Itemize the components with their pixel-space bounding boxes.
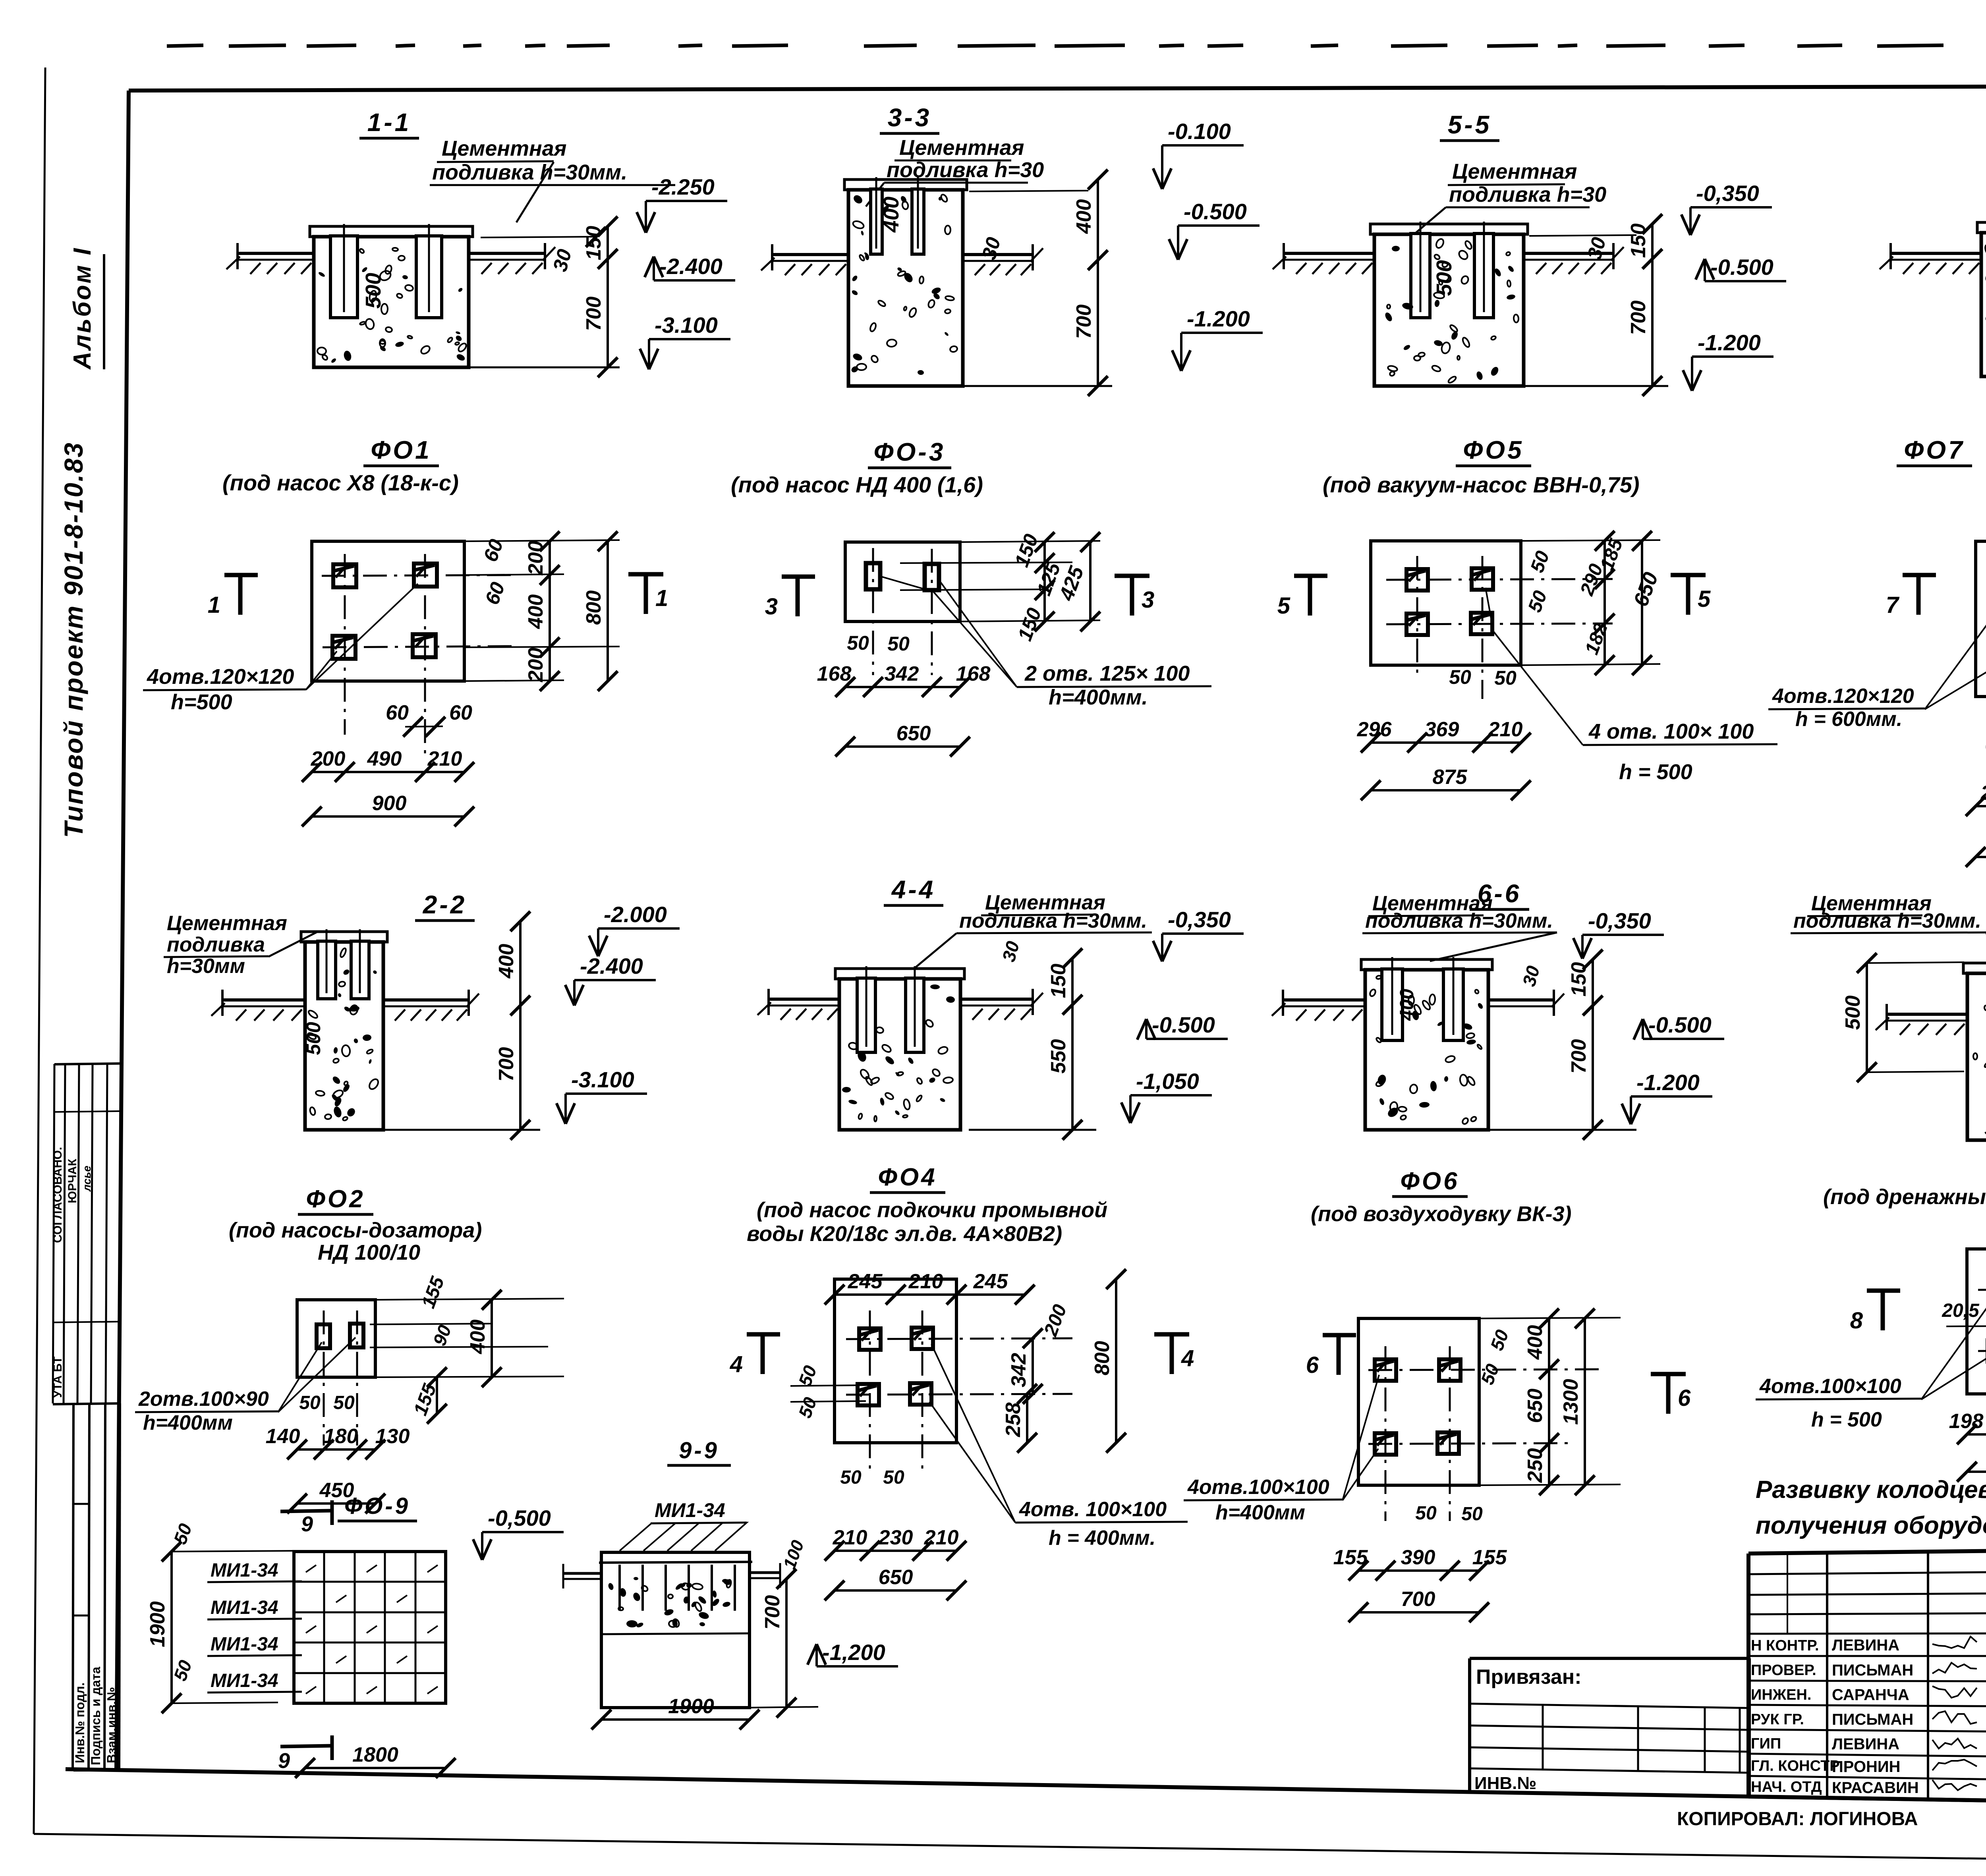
privyazan block — [1470, 1657, 1749, 1660]
svg-text:7: 7 — [1886, 592, 1900, 618]
svg-text:60: 60 — [386, 701, 409, 724]
svg-text:390: 390 — [1401, 1546, 1435, 1569]
section 4-4 vertical dimension — [1071, 958, 1074, 1130]
plan FO5 section marker left — [1308, 576, 1312, 616]
section 4-4 bottom extension — [969, 1129, 1096, 1131]
section 4-4 foundation block — [835, 969, 964, 979]
svg-text:ФО5: ФО5 — [1463, 436, 1524, 464]
svg-text:ФО6: ФО6 — [1400, 1168, 1459, 1195]
svg-text:245: 245 — [973, 1270, 1008, 1293]
svg-text:198: 198 — [1949, 1410, 1984, 1433]
plan FO2 outline — [297, 1300, 375, 1377]
section 4-4 floor slab right — [960, 998, 1033, 1001]
svg-text:ФО4: ФО4 — [878, 1164, 937, 1191]
section 1-1 anchor bolt slots — [330, 236, 357, 318]
svg-text:875: 875 — [1433, 766, 1468, 789]
svg-text:9-9: 9-9 — [679, 1438, 719, 1463]
title block left stamp rows — [1748, 1572, 1986, 1574]
svg-text:50: 50 — [883, 1467, 904, 1488]
svg-text:-0,350: -0,350 — [1696, 181, 1759, 206]
section 5-5 concrete texture — [1389, 371, 1395, 377]
svg-text:лсье: лсье — [81, 1166, 93, 1192]
plan FO4 bolt holes — [859, 1328, 881, 1350]
svg-text:ПРОНИН: ПРОНИН — [1832, 1758, 1901, 1776]
plan FO-9 grid — [294, 1552, 446, 1703]
section 6-6 floor slab right — [1488, 998, 1554, 1002]
svg-text:700: 700 — [582, 297, 605, 331]
svg-text:ПИСЬМАН: ПИСЬМАН — [1832, 1711, 1913, 1728]
svg-text:НАЧ. ОТД: НАЧ. ОТД — [1751, 1779, 1822, 1795]
section 3-3 foundation block — [844, 179, 967, 190]
section 2-2 foundation block — [301, 932, 387, 942]
svg-text:МИ1-34: МИ1-34 — [211, 1670, 278, 1691]
plan FO4 section marker left — [761, 1334, 765, 1374]
svg-text:-2.400: -2.400 — [659, 254, 723, 279]
section 5-5 floor slab right — [1524, 252, 1613, 255]
svg-text:ГИП: ГИП — [1751, 1735, 1781, 1752]
svg-text:СОГЛАСОВАНО.: СОГЛАСОВАНО. — [51, 1147, 64, 1243]
section 6-6 vertical dimension — [1592, 959, 1594, 1130]
svg-text:НД 100/10: НД 100/10 — [318, 1241, 420, 1264]
section 1-1 floor slab left — [238, 252, 314, 255]
svg-text:5: 5 — [1277, 593, 1291, 619]
svg-text:(под дренажный насос ВКС 1 (1: (под дренажный насос ВКС 1 (16) — [1823, 1185, 1986, 1209]
svg-text:ЮРЧАК: ЮРЧАК — [66, 1158, 79, 1203]
svg-text:4отв.100×100: 4отв.100×100 — [1187, 1476, 1329, 1499]
svg-text:1900: 1900 — [146, 1601, 169, 1647]
plan FO1 outline — [312, 541, 464, 681]
svg-text:-1.200: -1.200 — [1187, 306, 1250, 331]
section 1-1 floor slab right — [469, 252, 545, 255]
svg-text:50: 50 — [887, 633, 910, 655]
svg-text:500: 500 — [1841, 996, 1864, 1030]
svg-text:140: 140 — [266, 1425, 300, 1448]
svg-text:подливка h=30мм.: подливка h=30мм. — [1365, 909, 1553, 932]
svg-text:Развивку колодцев под болты пр: Развивку колодцев под болты производить … — [1756, 1476, 1986, 1504]
svg-text:-0,350: -0,350 — [1588, 908, 1651, 933]
svg-text:50: 50 — [847, 632, 869, 654]
section 3-3 floor slab left — [772, 253, 848, 256]
section 6-6 foundation block — [1361, 959, 1492, 970]
svg-text:1: 1 — [655, 585, 668, 611]
svg-text:50: 50 — [840, 1467, 862, 1488]
svg-text:САРАНЧА: САРАНЧА — [1832, 1686, 1909, 1704]
plan FO-9 section marker top — [280, 1511, 332, 1511]
plan FO5 outline — [1371, 541, 1521, 665]
section 5-5 vertical dimension — [1651, 224, 1654, 386]
svg-text:650: 650 — [896, 722, 931, 745]
svg-text:4-4: 4-4 — [891, 875, 936, 904]
svg-text:8: 8 — [1850, 1308, 1863, 1334]
section 9-9 block — [601, 1552, 750, 1708]
svg-text:6: 6 — [1306, 1352, 1319, 1378]
svg-text:1-1: 1-1 — [367, 108, 411, 137]
svg-text:-0.500: -0.500 — [1648, 1012, 1712, 1037]
svg-text:1800: 1800 — [352, 1743, 398, 1766]
svg-text:500: 500 — [361, 273, 385, 309]
section 3-3 concrete texture — [908, 307, 917, 318]
svg-text:ЛЕВИНА: ЛЕВИНА — [1832, 1735, 1899, 1753]
svg-text:400: 400 — [1397, 989, 1418, 1021]
plan FO-3 section marker right — [1130, 576, 1134, 616]
svg-text:4отв.100×100: 4отв.100×100 — [1759, 1375, 1901, 1398]
plan FO-3 outline — [845, 542, 960, 621]
svg-text:155: 155 — [1472, 1546, 1507, 1569]
svg-text:4 отв. 100× 100: 4 отв. 100× 100 — [1588, 720, 1754, 743]
svg-text:700: 700 — [1627, 301, 1650, 335]
svg-text:500: 500 — [302, 1022, 325, 1055]
plan FO-3 section marker left — [796, 577, 800, 616]
svg-text:h = 500: h = 500 — [1619, 760, 1692, 784]
plan FO1 section marker left — [238, 575, 243, 615]
section 1-1 vertical dimension — [607, 226, 609, 367]
svg-text:Цементная: Цементная — [167, 912, 287, 935]
svg-text:(под насос Х8 (18-к-с): (под насос Х8 (18-к-с) — [222, 470, 459, 495]
svg-text:Н КОНТР.: Н КОНТР. — [1751, 1637, 1819, 1654]
plan FO1 centerlines — [322, 575, 516, 576]
section 5-5 anchor bolt slots — [1411, 234, 1430, 318]
svg-text:подливка h=30мм.: подливка h=30мм. — [432, 160, 627, 184]
title block outline — [1748, 1545, 1986, 1554]
plan FO5 section marker right — [1686, 575, 1690, 615]
section 2-2 floor slab right — [383, 998, 469, 1002]
svg-text:ФО2: ФО2 — [306, 1185, 365, 1213]
svg-text:МИ1-34: МИ1-34 — [655, 1499, 725, 1521]
svg-text:2 отв. 125× 100: 2 отв. 125× 100 — [1024, 662, 1190, 685]
svg-text:50: 50 — [1461, 1504, 1483, 1525]
svg-text:369: 369 — [1425, 718, 1459, 741]
svg-text:ФО1: ФО1 — [371, 436, 431, 464]
svg-text:800: 800 — [582, 591, 605, 625]
plan FO-3 centerlines — [872, 548, 874, 675]
svg-text:150: 150 — [1047, 964, 1070, 998]
svg-text:ФО-3: ФО-3 — [874, 438, 946, 466]
svg-text:-2.400: -2.400 — [580, 953, 643, 979]
section 5-5 foundation block — [1370, 224, 1528, 234]
svg-text:4: 4 — [1181, 1345, 1194, 1371]
section 9-9 slab stubs — [564, 1572, 601, 1575]
svg-text:245: 245 — [848, 1270, 883, 1293]
section 8-8 floor slab left — [1887, 1013, 1967, 1016]
svg-text:4отв. 100×100: 4отв. 100×100 — [1019, 1498, 1167, 1521]
plan FO7 section marker left — [1916, 575, 1921, 615]
section 2-2 bottom extension — [383, 1129, 540, 1131]
svg-text:650: 650 — [1524, 1389, 1547, 1423]
svg-text:200: 200 — [524, 648, 547, 683]
svg-text:9: 9 — [278, 1749, 290, 1773]
plan FO5 right dims — [1521, 540, 1660, 541]
svg-text:550: 550 — [1047, 1039, 1070, 1074]
section 1-1 concrete texture — [381, 304, 388, 314]
plan FO2 slot holes — [317, 1324, 330, 1348]
svg-text:275: 275 — [1980, 782, 1986, 805]
drawing frame top — [129, 85, 1986, 91]
svg-text:150: 150 — [1567, 962, 1590, 997]
section 4-4 anchor bolt slots — [857, 978, 875, 1052]
plan FO8 centerlines — [1978, 1289, 1986, 1290]
plan FO6 bolt holes — [1375, 1359, 1396, 1381]
svg-text:155: 155 — [1333, 1546, 1368, 1569]
outer sheet edge top dashed — [167, 45, 203, 46]
svg-text:Привязан:: Привязан: — [1476, 1666, 1582, 1689]
svg-text:400: 400 — [1072, 199, 1095, 234]
svg-text:получения оборудования.: получения оборудования. — [1756, 1512, 1986, 1539]
svg-text:h=500: h=500 — [171, 690, 232, 714]
section 3-3 floor slab right — [963, 253, 1033, 256]
section 9-9 bottom dim 1900 — [601, 1718, 750, 1721]
section 8-8 left dim 500 — [1866, 963, 1868, 1072]
svg-text:ИНВ.№: ИНВ.№ — [1474, 1774, 1536, 1793]
section 2-2 vertical dimension — [519, 921, 522, 1130]
svg-text:МИ1-34: МИ1-34 — [211, 1597, 278, 1618]
svg-text:-0,500: -0,500 — [488, 1505, 551, 1531]
svg-text:(под насос подкочки промывной: (под насос подкочки промывной — [757, 1198, 1107, 1222]
svg-text:подливка h=30мм.: подливка h=30мм. — [959, 909, 1147, 932]
section 6-6 anchor bolt slots — [1382, 969, 1403, 1040]
section 8-8 foundation block — [1963, 963, 1986, 973]
svg-text:h=400мм.: h=400мм. — [1049, 685, 1148, 709]
svg-text:400: 400 — [466, 1320, 489, 1355]
section 3-3 bottom extension — [963, 385, 1112, 387]
svg-text:1: 1 — [208, 592, 220, 618]
svg-text:168: 168 — [817, 662, 852, 685]
plan FO8 bottom dims — [1967, 1433, 1986, 1436]
svg-text:-2.000: -2.000 — [604, 902, 667, 927]
plan FO5 bolt holes — [1406, 569, 1428, 591]
svg-text:подливка h=30: подливка h=30 — [1449, 183, 1606, 207]
section 6-6 concrete texture — [1376, 1037, 1381, 1043]
svg-text:h=400мм: h=400мм — [1215, 1501, 1305, 1524]
svg-text:-2.250: -2.250 — [651, 174, 715, 199]
svg-text:210: 210 — [427, 747, 462, 770]
svg-text:1900: 1900 — [668, 1695, 714, 1718]
section 6-6 bottom extension — [1488, 1129, 1636, 1131]
svg-text:200: 200 — [311, 747, 346, 770]
plan FO4 outline — [835, 1279, 956, 1443]
plan FO2 centerlines — [323, 1310, 325, 1446]
svg-text:(под вакуум-насос ВВН-0,75): (под вакуум-насос ВВН-0,75) — [1323, 472, 1640, 497]
plan FO-3 slot holes — [866, 563, 880, 589]
svg-text:ПРОВЕР.: ПРОВЕР. — [1751, 1662, 1816, 1679]
svg-text:130: 130 — [375, 1425, 410, 1448]
svg-text:20,5: 20,5 — [1942, 1300, 1980, 1321]
svg-text:-3.100: -3.100 — [571, 1067, 634, 1092]
svg-text:ПИСЬМАН: ПИСЬМАН — [1832, 1662, 1913, 1679]
svg-text:60: 60 — [449, 701, 472, 724]
svg-text:210: 210 — [908, 1270, 943, 1293]
section 4-4 concrete texture — [884, 1055, 896, 1066]
svg-text:210: 210 — [924, 1526, 959, 1549]
plan FO4 centerlines — [846, 1338, 1072, 1339]
svg-text:(под насос НД 400 (1,6): (под насос НД 400 (1,6) — [731, 472, 983, 497]
section 1-1 bottom extension — [469, 367, 620, 369]
svg-text:4отв.120×120: 4отв.120×120 — [1772, 685, 1914, 708]
svg-text:Цементная: Цементная — [899, 136, 1024, 160]
section 5-5 bottom extension — [1524, 385, 1668, 387]
svg-text:700: 700 — [761, 1595, 784, 1630]
svg-text:Инв.№ подл.: Инв.№ подл. — [73, 1683, 87, 1763]
svg-text:-3.100: -3.100 — [655, 313, 718, 338]
svg-text:5-5: 5-5 — [1448, 110, 1492, 139]
svg-text:(под воздуходувку ВК-3): (под воздуходувку ВК-3) — [1311, 1202, 1571, 1226]
plan FO6 centerlines — [1368, 1369, 1605, 1370]
plan FO1 dim 800 — [607, 541, 609, 681]
section 7-7 foundation block — [1977, 222, 1986, 233]
section 9-9 mesh hatch — [620, 1523, 747, 1551]
svg-text:(под насосы-дозатора): (под насосы-дозатора) — [229, 1218, 482, 1242]
svg-text:h=30мм: h=30мм — [167, 955, 245, 978]
svg-text:50: 50 — [1415, 1503, 1437, 1524]
svg-text:Цементная: Цементная — [442, 137, 566, 160]
svg-text:490: 490 — [367, 747, 402, 770]
svg-text:3: 3 — [765, 594, 778, 620]
section 2-2 floor slab left — [222, 998, 305, 1002]
svg-text:ФО-9: ФО-9 — [344, 1493, 410, 1519]
svg-text:650: 650 — [879, 1566, 913, 1589]
svg-text:подливка: подливка — [167, 933, 265, 956]
svg-text:296: 296 — [1357, 718, 1392, 741]
plan FO6 section marker right — [1666, 1374, 1671, 1414]
svg-text:Подпись и дата: Подпись и дата — [89, 1667, 103, 1765]
svg-text:2отв.100×90: 2отв.100×90 — [138, 1388, 269, 1411]
svg-text:5: 5 — [1698, 586, 1711, 612]
svg-text:-0.100: -0.100 — [1168, 119, 1231, 144]
svg-text:400: 400 — [1524, 1325, 1547, 1360]
plan FO5 centerlines — [1386, 579, 1613, 580]
section 7-7 floor slab left — [1891, 252, 1981, 255]
svg-text:КРАСАВИН: КРАСАВИН — [1832, 1779, 1919, 1797]
svg-text:-0.500: -0.500 — [1184, 199, 1247, 224]
svg-text:9: 9 — [301, 1512, 313, 1536]
svg-text:230: 230 — [878, 1526, 913, 1549]
svg-text:500: 500 — [1432, 260, 1456, 296]
svg-text:2-2: 2-2 — [423, 890, 467, 919]
left margin stamp boxes — [54, 1063, 121, 1064]
svg-text:ЛЕВИНА: ЛЕВИНА — [1832, 1637, 1899, 1654]
svg-text:3: 3 — [1142, 587, 1154, 613]
section 5-5 floor slab left — [1284, 252, 1374, 255]
section 3-3 anchor bolt slots — [871, 189, 882, 254]
svg-text:h = 600мм.: h = 600мм. — [1795, 708, 1902, 731]
svg-text:1300: 1300 — [1559, 1379, 1582, 1425]
svg-text:Типовой проект 901-8-10.83: Типовой проект 901-8-10.83 — [59, 442, 88, 838]
svg-text:50: 50 — [1494, 667, 1517, 689]
svg-text:400: 400 — [879, 197, 903, 233]
plan FO8 outline — [1967, 1249, 1986, 1394]
svg-text:ФО7: ФО7 — [1904, 436, 1965, 464]
plan FO1 section marker right — [644, 574, 648, 614]
svg-text:400: 400 — [524, 594, 547, 629]
svg-text:6: 6 — [1678, 1385, 1691, 1411]
svg-text:h = 400мм.: h = 400мм. — [1049, 1527, 1155, 1550]
svg-text:168: 168 — [956, 662, 991, 685]
section 4-4 floor slab left — [769, 998, 839, 1001]
svg-text:Альбом I: Альбом I — [69, 247, 96, 370]
plan FO-9 bottom dim — [305, 1767, 446, 1769]
svg-text:200: 200 — [524, 541, 547, 576]
svg-text:250: 250 — [1524, 1448, 1547, 1483]
title block signatures — [1932, 1637, 1977, 1648]
svg-text:h = 500: h = 500 — [1811, 1408, 1882, 1431]
plan FO6 outline — [1358, 1318, 1479, 1485]
svg-text:50: 50 — [1449, 666, 1471, 688]
svg-text:МИ1-34: МИ1-34 — [211, 1560, 278, 1581]
outer sheet edge bottom — [34, 1834, 1986, 1866]
svg-text:Цементная: Цементная — [1452, 160, 1577, 183]
plan FO7 outline — [1976, 541, 1986, 697]
svg-text:подливка h=30мм.: подливка h=30мм. — [1793, 909, 1981, 932]
svg-text:-0.500: -0.500 — [1152, 1012, 1215, 1037]
plan FO2 right dims — [375, 1299, 564, 1300]
svg-text:50: 50 — [299, 1392, 321, 1413]
svg-text:150: 150 — [1627, 224, 1650, 258]
svg-text:воды К20/18с эл.дв. 4А×80В2): воды К20/18с эл.дв. 4А×80В2) — [747, 1222, 1062, 1246]
section 2-2 concrete texture — [373, 970, 378, 975]
svg-text:180: 180 — [324, 1425, 358, 1448]
svg-text:-1,200: -1,200 — [822, 1640, 885, 1665]
drawing frame left — [116, 91, 129, 1769]
svg-text:КОПИРОВАЛ: ЛОГИНОВА: КОПИРОВАЛ: ЛОГИНОВА — [1677, 1808, 1918, 1830]
svg-text:900: 900 — [372, 792, 407, 815]
svg-text:РУК ГР.: РУК ГР. — [1751, 1711, 1804, 1728]
plan FO1 bolt holes — [333, 564, 356, 587]
svg-text:4отв.120×120: 4отв.120×120 — [147, 665, 294, 689]
plan FO6 section marker left — [1337, 1335, 1341, 1375]
svg-text:ИНЖЕН.: ИНЖЕН. — [1751, 1687, 1811, 1703]
section 1-1 grout leader — [516, 162, 554, 222]
left margin stamp boxes lower — [73, 1403, 73, 1771]
section 6-6 floor slab left — [1283, 998, 1365, 1002]
svg-text:МИ1-34: МИ1-34 — [211, 1634, 278, 1655]
svg-text:3-3: 3-3 — [888, 103, 932, 132]
svg-text:-1.200: -1.200 — [1698, 330, 1761, 355]
section 1-1 foundation block — [310, 226, 473, 237]
svg-text:-1,050: -1,050 — [1136, 1069, 1199, 1094]
svg-text:700: 700 — [1072, 305, 1095, 339]
svg-text:Взам.инв.№: Взам.инв.№ — [104, 1687, 119, 1763]
plan FO4 top dims — [835, 1293, 1025, 1296]
svg-text:210: 210 — [1488, 718, 1523, 741]
drawing frame bottom — [66, 1769, 1986, 1810]
svg-text:700: 700 — [495, 1047, 518, 1082]
svg-text:700: 700 — [1567, 1039, 1590, 1074]
svg-text:800: 800 — [1091, 1341, 1114, 1376]
svg-text:ГЛ. КОНСТР: ГЛ. КОНСТР — [1751, 1758, 1840, 1774]
svg-text:258: 258 — [1002, 1403, 1025, 1438]
svg-text:150: 150 — [582, 226, 605, 261]
outer sheet edge left — [34, 68, 45, 1834]
plan FO8 section marker left — [1881, 1291, 1885, 1330]
svg-text:342: 342 — [1007, 1353, 1030, 1388]
svg-text:342: 342 — [885, 662, 919, 685]
plan FO4 section marker right — [1170, 1334, 1174, 1374]
svg-text:h=400мм: h=400мм — [143, 1411, 233, 1434]
plan FO-9 section marker bottom — [280, 1746, 332, 1747]
svg-text:400: 400 — [495, 944, 518, 979]
section 3-3 vertical dimension — [1097, 179, 1099, 386]
svg-text:700: 700 — [1401, 1588, 1435, 1611]
plan FO1 right dims — [464, 540, 620, 541]
svg-text:-1.200: -1.200 — [1636, 1070, 1700, 1095]
svg-text:50: 50 — [333, 1392, 355, 1413]
svg-text:210: 210 — [833, 1526, 867, 1549]
plan FO-3 right dims — [960, 541, 1100, 542]
svg-text:-0,350: -0,350 — [1168, 907, 1231, 932]
svg-text:УТА БТ: УТА БТ — [51, 1357, 64, 1398]
svg-text:-0.500: -0.500 — [1710, 255, 1773, 280]
section 2-2 anchor bolt slots — [318, 941, 336, 999]
svg-text:4: 4 — [730, 1351, 743, 1377]
